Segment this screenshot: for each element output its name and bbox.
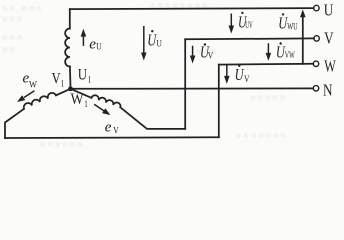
svg-text:UV: UV: [245, 20, 253, 30]
svg-text:1: 1: [84, 99, 88, 109]
scan bleed-through ghosts (decorative): [2, 3, 64, 13]
svg-text:e: e: [105, 120, 112, 136]
wire top rail U line: [70, 8, 314, 9]
label U_U phase voltage: [147, 30, 162, 50]
svg-text:V: V: [113, 126, 119, 136]
svg-text:WU: WU: [287, 22, 298, 32]
svg-text:W: W: [71, 91, 85, 108]
svg-text:V: V: [324, 29, 334, 48]
terminal N: [313, 86, 319, 92]
wire V line to terminal V: [185, 37, 314, 40]
label U_WU line voltage: [278, 13, 298, 33]
node star point junction U1 V1 W1: [68, 86, 73, 91]
arrow U_V second (phase voltage, down): [224, 65, 230, 84]
terminal W: [313, 61, 319, 67]
winding W (phase W coil): [24, 93, 56, 109]
arrow U_U (phase voltage, down): [141, 26, 147, 61]
arrow e_W (emf, down-left): [17, 91, 34, 102]
label U_V phase voltage second: [235, 65, 250, 84]
wire star point to winding V: [71, 89, 92, 98]
wire bottom rail: [5, 136, 219, 139]
svg-text:U: U: [235, 65, 245, 84]
svg-text:N: N: [323, 81, 333, 100]
svg-text:W: W: [324, 57, 336, 76]
svg-text:U: U: [156, 39, 162, 49]
winding U (phase U coil): [65, 29, 70, 67]
terminal U: [314, 5, 320, 11]
arrow U_UV (line voltage, down): [229, 14, 235, 34]
wire from top rail down to winding U: [69, 9, 71, 28]
voltage reference line U_WU: [302, 14, 304, 64]
svg-text:V: V: [208, 50, 214, 60]
wire W line to terminal W: [219, 63, 313, 66]
svg-text:VW: VW: [285, 50, 295, 60]
svg-text:W: W: [29, 79, 37, 89]
svg-text:U: U: [96, 42, 102, 52]
svg-text:V: V: [244, 74, 250, 84]
svg-text:U: U: [78, 66, 88, 83]
wire winding V down to bottom jog: [120, 107, 185, 128]
wire riser jog up to V line: [184, 39, 186, 129]
arrow U_V first (phase voltage, down): [190, 46, 196, 64]
svg-text:U: U: [324, 1, 334, 20]
wire winding W to bottom-left corner: [5, 109, 24, 138]
label U_V phase voltage first: [200, 43, 214, 62]
svg-text:V: V: [52, 70, 61, 87]
label U_UV line voltage: [238, 12, 253, 32]
winding V (phase V coil): [91, 95, 120, 107]
arrow e_U (emf, up): [81, 29, 87, 46]
label U_VW line voltage: [276, 42, 295, 61]
terminal V: [314, 36, 320, 42]
arrow U_VW (line voltage, down): [266, 43, 272, 61]
arrowhead U_WU (line voltage, up): [300, 10, 306, 18]
wire N line from star point to terminal N: [71, 87, 314, 89]
wire winding U to star point: [69, 67, 72, 88]
svg-text:1: 1: [88, 75, 92, 85]
arrow e_V (emf, down-right): [94, 104, 110, 115]
wire riser bottom rail up to W line: [218, 65, 220, 138]
wire star point to winding W: [56, 89, 71, 96]
svg-text:1: 1: [61, 79, 65, 89]
